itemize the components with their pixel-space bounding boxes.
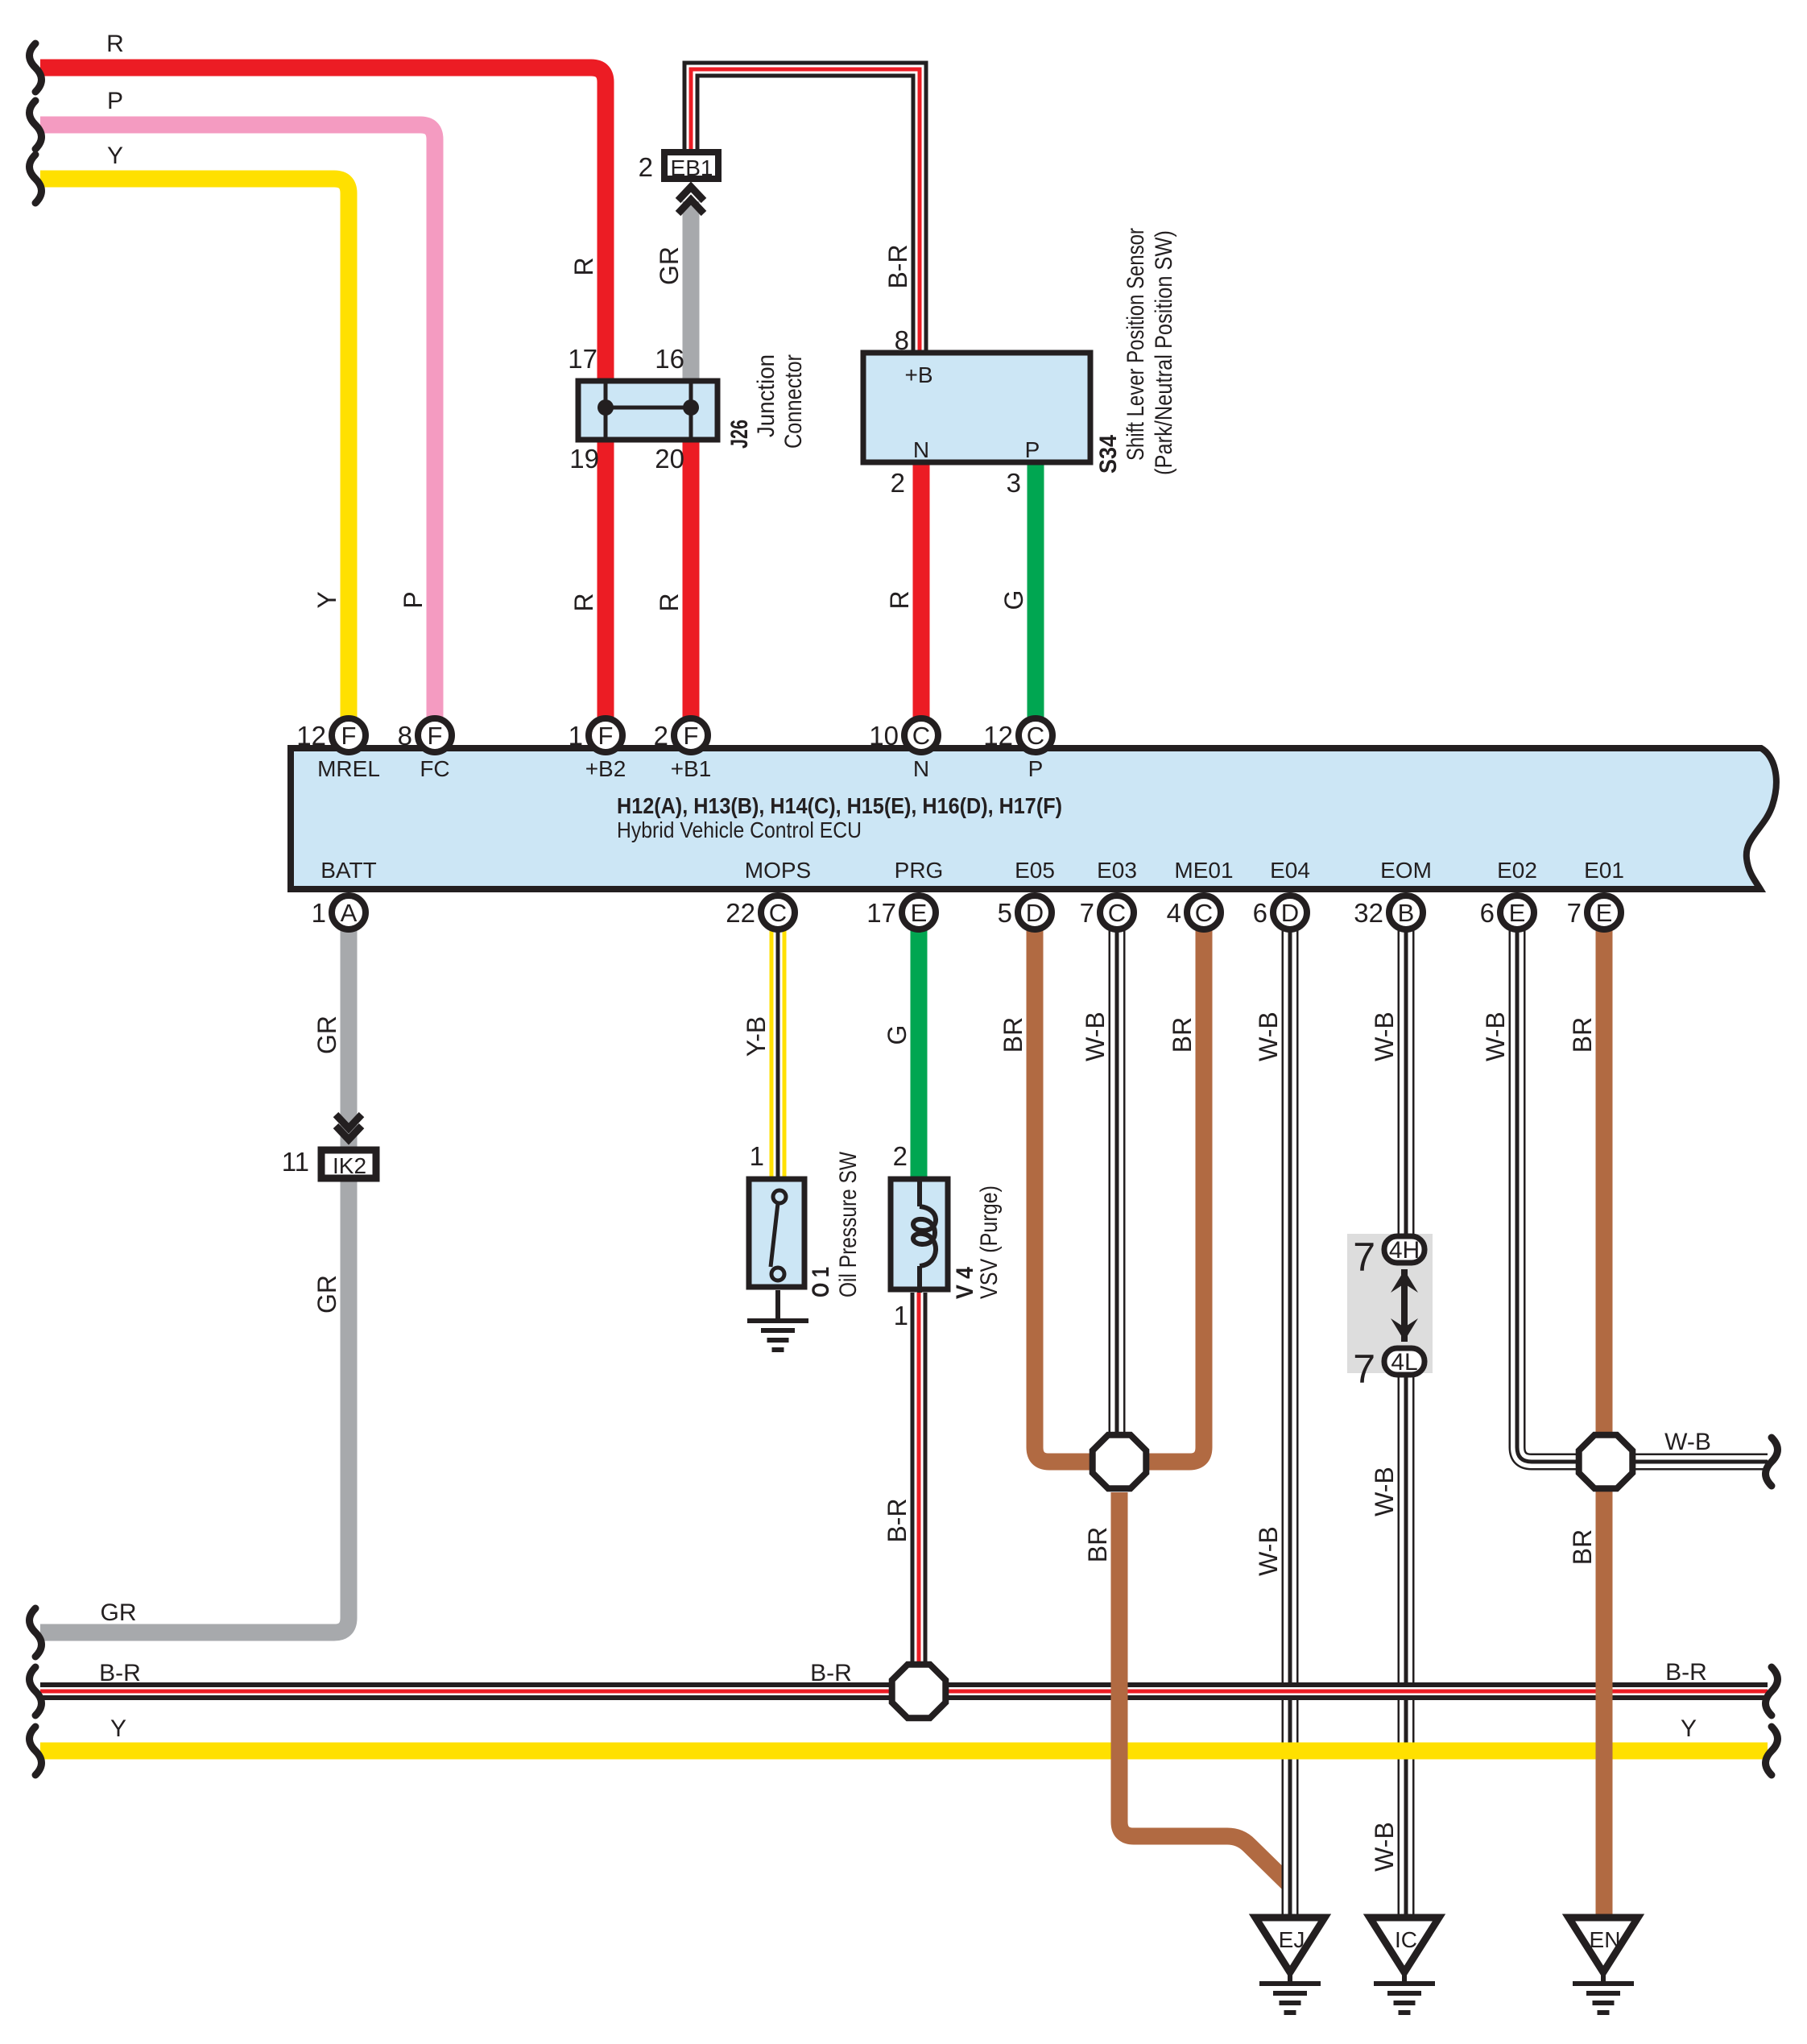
svg-text:11: 11: [282, 1147, 309, 1177]
svg-text:4L: 4L: [1391, 1349, 1417, 1376]
svg-text:BATT: BATT: [320, 858, 376, 883]
svg-text:C: C: [1108, 899, 1126, 927]
svg-text:7: 7: [1353, 1347, 1375, 1392]
svg-text:4: 4: [1167, 898, 1181, 928]
svg-text:B-R: B-R: [99, 1660, 141, 1686]
svg-text:Oil Pressure SW: Oil Pressure SW: [835, 1151, 862, 1297]
svg-text:Y-B: Y-B: [742, 1016, 771, 1057]
svg-text:7: 7: [1567, 898, 1582, 928]
svg-text:1: 1: [750, 1141, 764, 1171]
svg-text:F: F: [341, 722, 357, 750]
svg-text:W-B: W-B: [1370, 1822, 1399, 1872]
svg-text:B-R: B-R: [810, 1660, 852, 1686]
svg-text:R: R: [569, 593, 598, 611]
svg-text:4H: 4H: [1389, 1237, 1420, 1264]
svg-text:R: R: [655, 593, 684, 611]
svg-text:P: P: [399, 591, 428, 608]
svg-text:P: P: [1028, 756, 1044, 781]
svg-text:BR: BR: [1083, 1527, 1112, 1562]
svg-text:Shift Lever Position Sensor: Shift Lever Position Sensor: [1123, 228, 1149, 461]
svg-text:E: E: [911, 899, 928, 927]
svg-text:3: 3: [1007, 468, 1021, 498]
svg-text:+B2: +B2: [585, 756, 626, 781]
svg-text:BR: BR: [999, 1017, 1028, 1053]
svg-text:B-R: B-R: [883, 244, 912, 288]
svg-text:1: 1: [894, 1301, 908, 1330]
svg-text:E05: E05: [1015, 858, 1055, 883]
svg-text:22: 22: [726, 898, 755, 928]
svg-text:7: 7: [1353, 1235, 1375, 1280]
svg-text:7: 7: [1080, 898, 1094, 928]
svg-text:1: 1: [569, 721, 583, 751]
svg-text:BR: BR: [1568, 1529, 1597, 1565]
svg-text:EN: EN: [1590, 1927, 1621, 1952]
svg-text:10: 10: [869, 721, 899, 751]
svg-text:Hybrid Vehicle Control ECU: Hybrid Vehicle Control ECU: [617, 817, 862, 842]
svg-text:W-B: W-B: [1370, 1012, 1399, 1061]
svg-text:D: D: [1281, 899, 1299, 927]
svg-text:2: 2: [654, 721, 668, 751]
svg-text:PRG: PRG: [895, 858, 944, 883]
svg-text:J26: J26: [726, 420, 753, 449]
svg-text:EB1: EB1: [671, 155, 713, 180]
svg-text:S34: S34: [1095, 435, 1122, 474]
svg-text:B-R: B-R: [1665, 1659, 1707, 1686]
svg-text:H12(A), H13(B), H14(C), H15(E): H12(A), H13(B), H14(C), H15(E), H16(D), …: [617, 793, 1062, 818]
svg-text:E02: E02: [1497, 858, 1537, 883]
svg-text:GR: GR: [655, 246, 684, 285]
svg-text:E: E: [1596, 899, 1613, 927]
svg-text:F: F: [598, 722, 614, 750]
svg-text:C: C: [1195, 899, 1213, 927]
svg-text:B: B: [1398, 899, 1415, 927]
svg-text:A: A: [341, 899, 358, 927]
svg-text:C: C: [769, 899, 787, 927]
svg-text:Y: Y: [110, 1715, 126, 1742]
svg-text:O 1: O 1: [808, 1267, 834, 1297]
svg-text:+B: +B: [904, 362, 932, 387]
svg-text:6: 6: [1480, 898, 1495, 928]
svg-text:20: 20: [655, 444, 684, 474]
svg-text:BR: BR: [1168, 1017, 1197, 1053]
svg-text:IC: IC: [1395, 1927, 1417, 1952]
svg-text:VSV (Purge): VSV (Purge): [976, 1185, 1003, 1299]
svg-text:D: D: [1026, 899, 1044, 927]
svg-text:V 4: V 4: [952, 1267, 978, 1299]
svg-text:17: 17: [866, 898, 896, 928]
svg-text:W-B: W-B: [1664, 1429, 1711, 1455]
svg-text:2: 2: [891, 468, 905, 498]
svg-text:B-R: B-R: [883, 1498, 912, 1542]
svg-text:GR: GR: [101, 1599, 137, 1626]
svg-text:17: 17: [568, 344, 598, 374]
svg-text:8: 8: [895, 325, 909, 355]
svg-text:16: 16: [655, 344, 684, 374]
svg-text:P: P: [107, 88, 123, 114]
svg-text:EOM: EOM: [1380, 858, 1432, 883]
svg-text:Junction: Junction: [753, 354, 779, 437]
svg-text:W-B: W-B: [1254, 1012, 1283, 1061]
svg-text:C: C: [1027, 722, 1044, 750]
svg-text:FC: FC: [420, 756, 449, 781]
svg-text:F: F: [428, 722, 443, 750]
svg-text:EJ: EJ: [1279, 1927, 1305, 1952]
svg-text:MREL: MREL: [317, 756, 380, 781]
svg-text:32: 32: [1354, 898, 1383, 928]
svg-text:W-B: W-B: [1081, 1012, 1110, 1061]
svg-text:F: F: [684, 722, 699, 750]
svg-text:1: 1: [312, 898, 326, 928]
svg-text:8: 8: [398, 721, 412, 751]
svg-text:2: 2: [639, 152, 653, 182]
svg-text:R: R: [885, 590, 914, 609]
svg-text:N: N: [913, 756, 929, 781]
svg-text:ME01: ME01: [1174, 858, 1233, 883]
svg-text:W-B: W-B: [1370, 1467, 1399, 1516]
svg-text:W-B: W-B: [1254, 1526, 1283, 1576]
svg-text:P: P: [1025, 437, 1040, 462]
svg-text:GR: GR: [312, 1275, 341, 1314]
svg-text:12: 12: [983, 721, 1013, 751]
svg-text:GR: GR: [312, 1016, 341, 1054]
svg-text:Y: Y: [107, 143, 123, 169]
svg-text:19: 19: [569, 444, 599, 474]
svg-text:C: C: [912, 722, 930, 750]
svg-text:E04: E04: [1270, 858, 1310, 883]
svg-text:E01: E01: [1584, 858, 1624, 883]
svg-text:W-B: W-B: [1481, 1012, 1510, 1061]
svg-text:2: 2: [893, 1141, 908, 1171]
svg-text:+B1: +B1: [671, 756, 712, 781]
svg-text:G: G: [883, 1025, 912, 1045]
svg-text:BR: BR: [1568, 1017, 1597, 1053]
svg-text:6: 6: [1253, 898, 1267, 928]
svg-text:(Park/Neutral Position SW): (Park/Neutral Position SW): [1151, 230, 1177, 475]
svg-text:MOPS: MOPS: [745, 858, 811, 883]
svg-text:E: E: [1509, 899, 1526, 927]
svg-text:12: 12: [296, 721, 326, 751]
svg-text:Y: Y: [312, 591, 341, 608]
svg-text:G: G: [999, 590, 1028, 610]
svg-text:Y: Y: [1681, 1715, 1697, 1742]
svg-text:IK2: IK2: [333, 1153, 366, 1178]
svg-text:5: 5: [998, 898, 1012, 928]
svg-text:E03: E03: [1097, 858, 1137, 883]
svg-text:R: R: [569, 257, 598, 275]
svg-text:R: R: [106, 31, 124, 57]
svg-text:Connector: Connector: [780, 354, 807, 449]
svg-text:N: N: [913, 437, 929, 462]
